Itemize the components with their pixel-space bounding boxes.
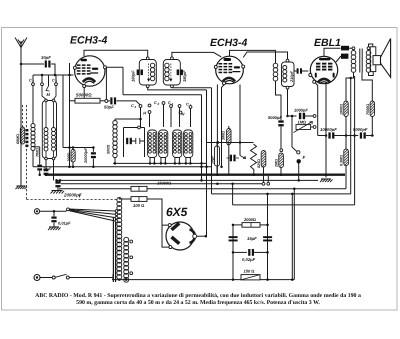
- wire tube1 anode to IFT1: [84, 50, 148, 57]
- svg-text:H: H: [143, 111, 146, 116]
- electrolytic 10uF outline: [215, 146, 220, 166]
- capacitor 10000pF: [318, 135, 327, 137]
- resistor 50000 ohm: [75, 98, 100, 103]
- wire EBL1 cathode down: [325, 82, 327, 178]
- transformer taps: [130, 240, 133, 243]
- wire: [62, 75, 64, 148]
- wires coil bottoms: [149, 158, 151, 164]
- primary core: [25, 129, 28, 131]
- svg-text:ABC RADIO - Mod. R 941 - Super: ABC RADIO - Mod. R 941 - Supereterodina …: [35, 292, 361, 299]
- wire 0.5M down corner: [345, 166, 347, 189]
- wire to switch: [116, 101, 140, 105]
- IFT3 coil: [283, 66, 287, 70]
- wire tube1 bottom: [83, 88, 85, 99]
- wire speaker return corner: [354, 76, 356, 205]
- tube ECH3-4 first - envelope: [75, 56, 105, 86]
- switch contact G: [41, 83, 44, 86]
- tube2 cathode: [223, 78, 235, 81]
- wire horizontal 147.5: [63, 147, 93, 149]
- resistor 15000 ohm: [131, 186, 147, 191]
- antenna: [15, 38, 27, 48]
- wire osc vertical b: [206, 90, 208, 236]
- IF transformer 1 - can: [139, 60, 156, 86]
- wire tube2 left down: [216, 85, 218, 175]
- capacitor 50pF: [110, 97, 112, 104]
- wire IFT1 secondary down: [148, 88, 207, 90]
- IFT3 pins: [286, 59, 289, 62]
- svg-text:150 Ω: 150 Ω: [244, 269, 255, 274]
- coil unit B: [148, 130, 157, 158]
- svg-text:10000pF: 10000pF: [320, 127, 337, 132]
- wire trafo bottom joins: [118, 278, 121, 281]
- inductor primary winding: [31, 124, 35, 128]
- 6X5 anode bars: [172, 223, 180, 230]
- potentiometer 1M: [296, 125, 311, 130]
- resistor 7200 ohm field: [370, 101, 374, 117]
- capacitor 16uF b: [263, 236, 272, 238]
- wire trafo top to 100ohm: [119, 198, 131, 200]
- antenna can inner wires: [45, 102, 47, 128]
- svg-text:20000pF: 20000pF: [63, 193, 82, 198]
- tube 6X5 - envelope: [166, 222, 194, 250]
- output transformer core: [359, 49, 361, 73]
- svg-text:ECH3-4: ECH3-4: [70, 35, 108, 47]
- svg-text:300Ω: 300Ω: [222, 131, 226, 140]
- wire mains to trafo: [69, 277, 113, 279]
- svg-text:200Ω: 200Ω: [67, 152, 71, 162]
- capacitor 20000pF mid: [92, 148, 94, 152]
- wire IFT2 to tube2 grid: [172, 52, 221, 57]
- speaker frame: [370, 47, 376, 72]
- capacitor 0.01uF phono: [53, 211, 55, 216]
- capacitor trimmer black: [126, 138, 128, 144]
- wire resistor downs: [345, 117, 347, 149]
- ground phono: [49, 226, 59, 228]
- terminal mains: [34, 275, 40, 281]
- IF transformer 2 - can: [163, 60, 180, 86]
- mech dashed frame left: [26, 105, 28, 200]
- wire bus 183.8: [61, 183, 262, 185]
- capacitor 1000pF: [288, 115, 297, 117]
- svg-text:1000pF: 1000pF: [294, 108, 308, 113]
- wire EBL1 right: [336, 56, 341, 62]
- capacitor 5000pF series: [280, 100, 282, 120]
- capacitor 16uF a: [229, 236, 238, 238]
- wire filter vertical right: [267, 194, 269, 280]
- svg-text:10µF: 10µF: [210, 155, 214, 164]
- svg-text:180pF: 180pF: [131, 70, 136, 82]
- EBL1 beam plates: [315, 73, 317, 78]
- antenna can top pins: [45, 99, 48, 102]
- svg-text:2: 2: [157, 102, 160, 106]
- trimmer RC pair: [124, 128, 145, 158]
- power transformer core: [112, 217, 114, 282]
- 6X5 cathode: [190, 230, 195, 243]
- resistor 300 ohm: [227, 129, 231, 145]
- wire EBL1 diode plate down: [313, 80, 316, 83]
- wire trafo bottom: [112, 278, 114, 280]
- wire phono: [40, 210, 66, 212]
- EBL1 grid rows: [316, 63, 320, 65]
- wire antenna to cap: [21, 63, 44, 65]
- wire trafo core bottom: [112, 274, 114, 280]
- power transformer primary: [117, 198, 122, 203]
- wire band-switch horizontal: [33, 74, 74, 76]
- capacitor 5000pF out: [360, 132, 362, 138]
- switch pin tone a: [313, 115, 316, 118]
- node junction pin: [105, 99, 108, 102]
- wire branch down a: [291, 194, 293, 280]
- switch contact C2 left: [32, 83, 35, 86]
- IFT2 pins: [171, 57, 174, 60]
- capacitor tone top: [341, 46, 349, 51]
- wire EBL1 grid horizontal: [294, 70, 297, 72]
- wire osc vertical a: [201, 95, 203, 181]
- wire 6X5 cathode out: [197, 235, 206, 237]
- svg-text:0.5MΩ: 0.5MΩ: [340, 155, 344, 166]
- wire: [33, 146, 40, 148]
- wire bus 193.9: [212, 193, 351, 195]
- resistor 150 ohm: [241, 275, 260, 280]
- wire tube2 anode right: [243, 52, 287, 59]
- wire tube2 to osc coil: [230, 50, 276, 63]
- wire antenna coil sec down: [53, 160, 55, 181]
- svg-text:30pF: 30pF: [41, 55, 51, 60]
- switch contact C2 right: [55, 83, 58, 86]
- svg-text:50000Ω: 50000Ω: [76, 93, 92, 98]
- node antenna junction: [20, 63, 23, 66]
- antenna coil winding 2: [52, 128, 56, 132]
- svg-text:15000Ω: 15000Ω: [157, 181, 171, 186]
- tube1 anode: [81, 59, 87, 62]
- capacitor 0.02uF: [233, 251, 247, 253]
- output transformer primary: [351, 51, 356, 56]
- wire tube1 grid3 right: [107, 66, 124, 68]
- switch pin: [280, 149, 283, 152]
- IFT2 capacitor 180pF: [177, 70, 180, 76]
- svg-text:1000Ω: 1000Ω: [340, 104, 344, 115]
- wire cap to grid line: [51, 64, 55, 75]
- wire mains: [40, 277, 52, 279]
- wire long vertical: [69, 63, 71, 167]
- wire bus 188.8: [59, 188, 131, 190]
- wire bus 204.9: [233, 204, 355, 206]
- svg-text:2000Ω: 2000Ω: [243, 217, 256, 222]
- ground antenna: [17, 185, 26, 187]
- wire middle return: [350, 78, 352, 194]
- resistor 60M ohm: [20, 127, 24, 144]
- capacitor grid EBL1: [297, 68, 299, 73]
- EBL1 cathode: [318, 79, 331, 83]
- svg-text:0,01µF: 0,01µF: [58, 221, 71, 226]
- wire coil bottom left: [32, 151, 34, 167]
- tube ECH3-4 second - envelope: [216, 56, 244, 84]
- wire filter vertical left: [232, 225, 234, 280]
- svg-text:500Ω: 500Ω: [107, 145, 111, 154]
- transformer pins: [352, 47, 355, 50]
- svg-text:825Ω: 825Ω: [257, 159, 261, 168]
- tube2 pins: [214, 66, 217, 69]
- capacitor trimmer open: [131, 138, 144, 144]
- wire cap to transformer: [349, 47, 352, 49]
- phono jack hot: [297, 159, 301, 163]
- wire trafo pri bottom: [346, 73, 354, 101]
- wire 142.5 horizontal: [207, 142, 254, 144]
- wire antenna mast: [20, 48, 22, 187]
- resistor 2M ohm: [279, 153, 284, 168]
- svg-text:ECH3-4: ECH3-4: [210, 37, 248, 49]
- svg-text:5000pF: 5000pF: [353, 127, 368, 132]
- inductor tracking coil: [113, 121, 117, 125]
- svg-text:590 m, gamma corta da 40 a 50: 590 m, gamma corta da 40 a 50 m e da 24 …: [76, 299, 320, 306]
- capacitor coupling 2: [45, 160, 47, 170]
- switch pins AF: [262, 182, 265, 185]
- capacitor 30000pF left: [39, 147, 41, 165]
- phono jack top pin: [297, 151, 300, 154]
- wires selector fan: [69, 209, 115, 211]
- mech dashed frame bottom: [27, 199, 118, 201]
- wire tube2 right down: [239, 85, 241, 156]
- wire pot left down to jack: [291, 116, 293, 147]
- antenna coil bottom wires: [45, 151, 47, 157]
- wire: [32, 75, 34, 83]
- svg-text:7500Ω: 7500Ω: [366, 104, 370, 115]
- svg-text:1MΩ: 1MΩ: [298, 120, 307, 125]
- svg-text:2MΩ: 2MΩ: [275, 159, 279, 168]
- wire B+ thick bus: [45, 173, 345, 175]
- svg-text:EBL1: EBL1: [314, 37, 341, 49]
- svg-text:6X5: 6X5: [166, 205, 188, 219]
- IFT1 capacitor 180pF: [137, 70, 140, 76]
- EBL1 top anode bar: [319, 58, 331, 61]
- wire field coil top: [362, 73, 372, 102]
- ground symbol main: [52, 190, 63, 192]
- speaker horn: [381, 39, 391, 78]
- wire bottom chassis: [112, 279, 241, 281]
- svg-text:F: F: [303, 155, 306, 160]
- output transformer secondary: [366, 51, 371, 56]
- antenna can bottom pins: [45, 157, 48, 160]
- capacitor 10uF black: [230, 155, 232, 162]
- svg-text:20000pF: 20000pF: [84, 147, 88, 164]
- power transformer secondary: [124, 237, 129, 242]
- wire osc vertical c: [211, 88, 213, 194]
- resistor 0.5M ohm: [344, 149, 349, 166]
- wire IFT2 bottom: [172, 87, 212, 89]
- resistor 2000 ohm: [233, 224, 242, 226]
- wire bus 167 extension: [93, 166, 211, 168]
- wire bus 180.4: [57, 179, 319, 181]
- svg-text:180pF: 180pF: [182, 70, 187, 82]
- terminal phono: [34, 209, 39, 214]
- wire AVC return: [122, 67, 124, 95]
- coil unit D: [173, 130, 182, 158]
- coil unit C: [159, 130, 168, 158]
- wire osc coil down: [276, 81, 282, 100]
- variable inductor antenna - can: [42, 101, 56, 159]
- mech dashed link short: [22, 105, 24, 127]
- tube2 anode: [224, 58, 232, 61]
- wire jack down: [298, 164, 300, 181]
- svg-text:0,02µF: 0,02µF: [242, 257, 256, 262]
- wire 100ohm to 6X5: [147, 199, 168, 225]
- potentiometer zigzag 0.25M: [251, 144, 257, 169]
- wire bus 163: [113, 162, 207, 164]
- resistor 1000 ohm: [344, 101, 348, 117]
- IFT2 coil: [165, 63, 169, 67]
- svg-text:50pF: 50pF: [104, 105, 114, 110]
- svg-text:16µF: 16µF: [247, 236, 257, 241]
- wire EBL1 anode up: [324, 48, 341, 56]
- resistor 825 ohm: [261, 151, 266, 168]
- wire trafo sec bottom: [369, 72, 374, 76]
- 6X5 pins: [168, 224, 171, 227]
- svg-text:210pF: 210pF: [290, 70, 294, 83]
- tube1 cathode: [83, 78, 95, 82]
- switch pin tone b: [313, 126, 316, 129]
- switch mains: [52, 276, 55, 279]
- oscillator coil: [273, 63, 278, 68]
- capacitor 30pF: [45, 61, 47, 68]
- svg-text:5000pF: 5000pF: [268, 115, 282, 120]
- capacitor 20000pF to ground: [57, 181, 59, 182]
- IFT2 tuning arrow: [170, 64, 172, 80]
- ground EBL1 cathode: [321, 178, 331, 180]
- IFT1 tuning arrow: [148, 64, 150, 80]
- wire down to 50pF junction: [105, 67, 107, 101]
- tube2 grids: [219, 63, 223, 65]
- resistor 200 ohm: [71, 150, 75, 163]
- antenna coil winding 1: [44, 128, 48, 132]
- wire horizontal 167: [33, 166, 93, 168]
- wire branch down b: [293, 189, 295, 280]
- IFT1 coil: [150, 63, 154, 67]
- wire 825 down: [263, 167, 265, 182]
- switch phono contacts: [67, 208, 70, 211]
- svg-text:60MΩ: 60MΩ: [16, 134, 20, 144]
- tube EBL1 - envelope: [310, 56, 337, 83]
- wires switch to coils: [140, 108, 142, 128]
- coil unit E: [184, 130, 193, 158]
- svg-text:100 Ω: 100 Ω: [133, 203, 145, 208]
- wire IFT3 bottom: [287, 89, 289, 116]
- svg-text:700Ω: 700Ω: [35, 148, 39, 157]
- speaker voice coil: [373, 56, 381, 65]
- wire corner 232.6: [232, 184, 234, 205]
- resistor 100 ohm: [131, 197, 147, 202]
- wire trafo sec top to speaker: [369, 44, 373, 47]
- switch pins misc: [170, 105, 173, 108]
- IFT1 pins: [146, 57, 149, 60]
- wire tube2 cathode pin down: [222, 85, 225, 167]
- tube1 grids: [77, 64, 81, 66]
- IF transformer 3 - can: [282, 62, 295, 87]
